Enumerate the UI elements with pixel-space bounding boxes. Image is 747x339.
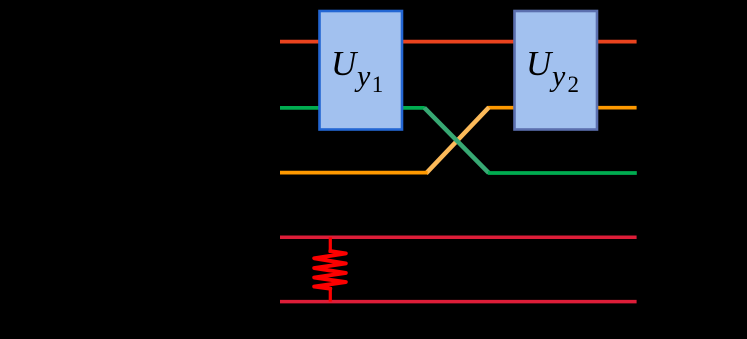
op block U1: unitary U_y1 (320, 11, 403, 130)
wire: green input rail into U_y1 (280, 106, 425, 110)
wire: green diagonal of swap crossing (424, 108, 489, 173)
svg-text:y: y (549, 60, 566, 93)
wire: top mode rail (red-orange) (280, 40, 637, 44)
wire: orange diagonal of swap crossing (426, 107, 489, 173)
svg-text:U: U (526, 44, 554, 83)
resistor R (red zigzag) (314, 251, 346, 289)
label U_y1 (331, 44, 383, 97)
svg-text:U: U (331, 44, 359, 83)
op block U2: unitary U_y2 (515, 11, 598, 130)
wire: orange input lower rail (280, 171, 428, 175)
wire: vertical connector bottom of resistor (329, 287, 332, 302)
wire: green lower output rail after swap (488, 171, 637, 175)
label U_y2 (526, 44, 579, 97)
wire: lower crimson classical rail (280, 300, 637, 304)
wire: upper crimson classical rail (280, 236, 637, 240)
svg-text:y: y (354, 60, 371, 93)
wire: orange rail into U_y2 and output (488, 106, 637, 110)
svg-text:2: 2 (568, 72, 580, 97)
svg-text:1: 1 (372, 72, 384, 97)
wire: vertical connector top of resistor (329, 237, 332, 253)
